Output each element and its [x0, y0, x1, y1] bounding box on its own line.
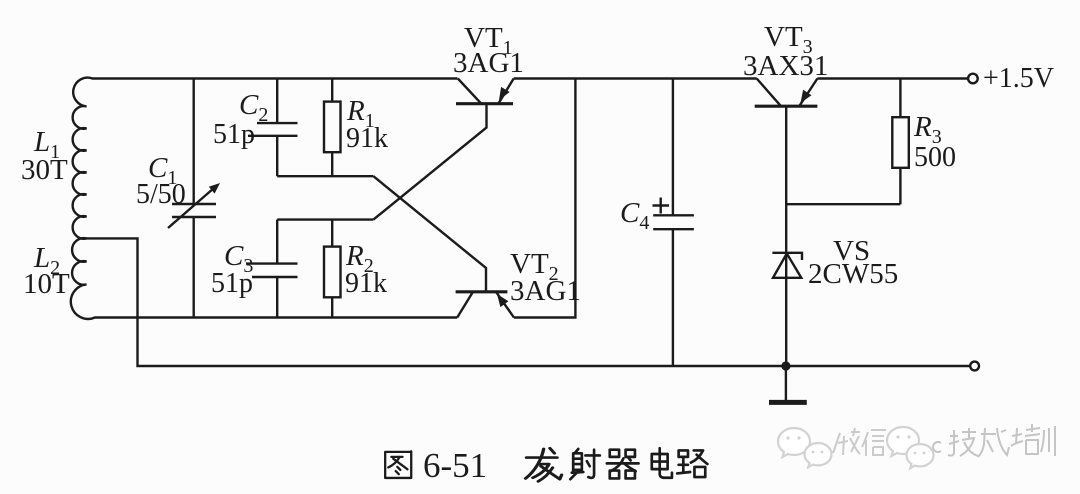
node line R2 C3 junction: [277, 218, 373, 220]
capacitor C1 wire top: [192, 79, 194, 205]
capacitor C3 wire top: [276, 220, 278, 264]
wire +1.5V rail: [817, 77, 968, 79]
capacitor C1 variable arrow: [168, 188, 214, 228]
ground: [785, 366, 787, 400]
svg-text:3AX31: 3AX31: [743, 50, 828, 82]
transistor VT1 collector: [458, 79, 482, 104]
caption char dian (electric): [652, 448, 672, 478]
watermark text jicheng peixun: [933, 424, 1055, 457]
inductor L1: [73, 78, 458, 239]
svg-text:51p: 51p: [213, 119, 255, 150]
svg-text:51p: 51p: [211, 268, 253, 299]
resistor R1 body: [324, 102, 341, 153]
junction dot ground node: [781, 361, 790, 370]
svg-text:C4: C4: [620, 197, 649, 234]
watermark wechat icon 1: [778, 428, 831, 467]
wire VT2 emitter return: [514, 79, 576, 318]
terminal +1.5V: [968, 74, 978, 84]
svg-text:91k: 91k: [346, 123, 388, 154]
caption char she (shoot): [570, 449, 600, 479]
transistor VT2 collector: [457, 292, 473, 318]
inductor L2: [71, 238, 457, 319]
transistor VT1 emitter: [498, 79, 513, 104]
transistor VT1 base bar: [456, 102, 513, 105]
wire VT3 base down: [785, 106, 787, 366]
svg-text:6-51: 6-51: [423, 446, 487, 485]
watermark wechat icon 2: [887, 427, 933, 468]
capacitor C2 wire bottom: [276, 136, 278, 176]
capacitor C1 wire bottom: [192, 217, 194, 318]
resistor R2 body: [324, 247, 341, 298]
caption char qi (device): [607, 450, 639, 479]
svg-text:30T: 30T: [21, 154, 68, 186]
svg-text:2CW55: 2CW55: [808, 258, 898, 290]
capacitor C3 plates: [246, 264, 298, 277]
svg-text:5/50: 5/50: [136, 179, 186, 210]
resistor R1 wires: [331, 79, 333, 177]
capacitor C2 plates: [248, 123, 298, 136]
wire emitter rail: [514, 77, 757, 79]
caption char fa (emit): [526, 448, 562, 481]
resistor R3 body: [892, 117, 909, 168]
svg-text:3AG1: 3AG1: [510, 275, 581, 307]
caption char tu (figure): [385, 451, 411, 478]
svg-text:10T: 10T: [23, 268, 70, 300]
wire coil tap to ground rail: [87, 238, 970, 366]
caption char lu (road): [677, 450, 707, 477]
wire cross-couple to VT2 base: [373, 176, 486, 292]
svg-text:3AG1: 3AG1: [453, 47, 524, 79]
transistor VT2 base bar: [456, 290, 508, 293]
capacitor C4 wire bottom: [672, 229, 674, 366]
capacitor C3 wire bottom: [276, 277, 278, 318]
wire R3 bottom to VT3 base: [786, 203, 900, 205]
svg-text:+1.5V: +1.5V: [983, 63, 1054, 94]
svg-text:500: 500: [914, 142, 956, 173]
transistor VT1 emitter arrow: [499, 87, 510, 100]
transistor VT3 emitter arrow: [801, 90, 812, 103]
capacitor C1 plates: [172, 204, 216, 217]
transistor VT2 emitter arrow: [497, 294, 508, 307]
zener diode VS triangle: [773, 254, 801, 278]
capacitor C4 wire top: [672, 79, 674, 216]
capacitor C4 plates: [653, 215, 694, 229]
resistor R3 wires: [899, 79, 901, 205]
transistor VT3 collector: [757, 79, 781, 107]
resistor R2 wires: [331, 220, 333, 318]
capacitor C4 polarity plus: [653, 198, 670, 214]
svg-text:91k: 91k: [345, 268, 387, 299]
capacitor C2 wire top: [276, 79, 278, 124]
transistor VT3 emitter: [799, 79, 817, 107]
transistor VT2 emitter: [496, 292, 514, 318]
zener diode VS cathode bar: [772, 253, 802, 260]
terminal output: [970, 362, 979, 371]
node line R1 C2 junction: [277, 175, 373, 177]
watermark text weixin: [833, 428, 886, 456]
transistor VT3 base bar: [755, 105, 818, 108]
wire cross-couple to VT1 base: [373, 104, 486, 220]
